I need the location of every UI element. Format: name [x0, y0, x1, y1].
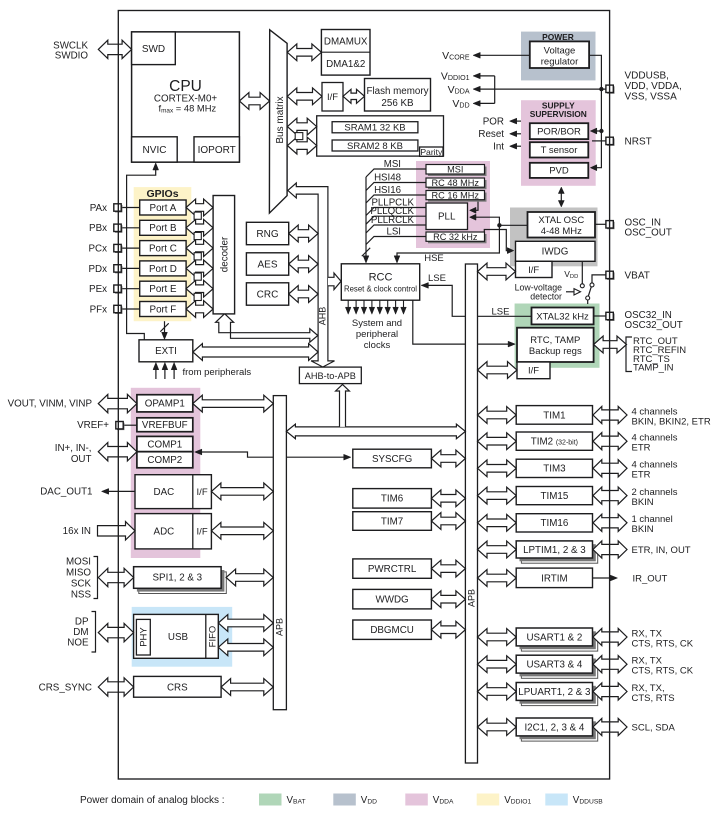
legend swatch: [259, 794, 282, 806]
junction overlap port arrows: [194, 253, 201, 260]
switch contacts low-voltage switch: [580, 284, 584, 288]
VDD domain tint XTAL OSC: [510, 208, 598, 267]
svg-text:DBGMCU: DBGMCU: [370, 625, 414, 636]
svg-text:IRTIM: IRTIM: [541, 573, 568, 584]
svg-text:CTS, RTS: CTS, RTS: [632, 693, 675, 704]
arrow APB to IRTIM: [478, 570, 517, 587]
arrow USART1 &amp; 2 pins: [593, 628, 627, 645]
VBAT domain tint RTC: [515, 304, 600, 368]
wire VDD to backup switch: [581, 261, 583, 283]
svg-text:AHB: AHB: [318, 307, 328, 326]
block SWD: [132, 32, 176, 65]
wire clock bundle to RCC: [365, 177, 367, 260]
node HSE junction: [497, 223, 501, 227]
wire HSI48 clock: [366, 183, 426, 191]
arrow low-voltage detector: [566, 291, 574, 293]
block TIM2: [516, 432, 592, 450]
block LPTIM1, 2 &amp; 3: [521, 546, 597, 563]
block SRAM2: [332, 140, 418, 151]
bus RCC AHB connector: [328, 273, 341, 290]
arrow bus matrix to DMA: [287, 44, 321, 61]
junction overlap port arrows: [194, 212, 201, 219]
block WWDG: [353, 589, 432, 609]
wire supply rail down to POR/BOR: [592, 89, 602, 168]
arrow TIM6 to APB: [431, 490, 465, 507]
arrow AES to AHB: [289, 256, 318, 273]
svg-text:CPU: CPU: [169, 78, 202, 95]
block PWRCTRL: [353, 559, 432, 578]
arrow APB to USART3 &amp; 4: [478, 656, 517, 673]
svg-text:RNG: RNG: [256, 229, 278, 240]
svg-text:detector: detector: [530, 292, 562, 302]
svg-text:RC 16 MHz: RC 16 MHz: [432, 190, 480, 200]
block USART1 &amp; 2: [521, 633, 597, 651]
svg-text:SYSCFG: SYSCFG: [372, 454, 412, 465]
svg-text:256 KB: 256 KB: [381, 98, 414, 109]
wires system and peripheral clocks: [347, 300, 349, 311]
svg-text:COMP1: COMP1: [147, 440, 182, 451]
wire LSE from RCC to XTAL32: [422, 285, 532, 316]
block IOPORT: [194, 137, 239, 162]
wire switch to backup domain: [587, 300, 589, 304]
wire HSE junction to XTAL OSC: [499, 224, 527, 226]
node POR/BOR junction: [599, 129, 603, 133]
arrow CRC to AHB: [289, 286, 318, 303]
VDDA domain tint supply supervision: [521, 100, 596, 186]
block POR BOR: [530, 123, 589, 139]
svg-text:TIM1: TIM1: [543, 410, 565, 421]
svg-text:Power domain of analog blocks: Power domain of analog blocks :: [80, 795, 225, 806]
svg-text:MSI: MSI: [384, 159, 401, 170]
VDDA domain tint analog blocks: [131, 388, 201, 558]
svg-text:PBx: PBx: [89, 223, 107, 234]
bracket USB pins: [92, 612, 96, 653]
wire from peripherals arrows into EXTI: [155, 366, 157, 379]
wire EXTI to NVIC interrupt: [127, 167, 156, 340]
svg-text:LSI: LSI: [386, 226, 401, 237]
svg-text:BKIN: BKIN: [632, 524, 654, 535]
arrow TIM1 pins: [593, 406, 627, 423]
svg-text:FIFO: FIFO: [207, 626, 218, 648]
wire NRST to reset circuitry: [592, 140, 606, 142]
arrow RNG to AHB: [289, 225, 318, 242]
block OPAMP1: [137, 395, 193, 412]
svg-text:ETR: ETR: [632, 443, 651, 454]
svg-text:Port C: Port C: [149, 244, 177, 255]
wire LSI to IWDG: [484, 230, 512, 251]
svg-text:ETR: ETR: [632, 470, 651, 481]
svg-text:PLL: PLL: [438, 212, 456, 223]
svg-text:DAC: DAC: [154, 487, 175, 498]
block CRS: [134, 676, 222, 697]
svg-text:DMA1&2: DMA1&2: [326, 59, 365, 70]
svg-text:COMP2: COMP2: [147, 455, 182, 466]
svg-text:LSE: LSE: [428, 273, 446, 284]
svg-text:Port F: Port F: [150, 304, 177, 315]
svg-text:VSS, VSSA: VSS, VSSA: [625, 91, 678, 102]
block Port F: [140, 302, 186, 317]
svg-text:VREF+: VREF+: [77, 420, 109, 431]
wire HSE to PLL input: [471, 217, 499, 225]
svg-text:SUPERVISION: SUPERVISION: [530, 109, 587, 119]
svg-text:MSI: MSI: [447, 165, 463, 175]
svg-text:SRAM2 8 KB: SRAM2 8 KB: [347, 141, 403, 152]
svg-text:OPAMP1: OPAMP1: [145, 399, 185, 410]
arrow TIM3 pins: [593, 460, 627, 477]
wire LSI clock: [366, 237, 426, 245]
arrow Port C to decoder: [186, 240, 213, 257]
block decoder: [213, 196, 235, 314]
block COMP2: [137, 452, 193, 468]
arrow Port A to decoder: [186, 199, 213, 216]
pin IR_OUT: [593, 577, 615, 579]
svg-text:I/F: I/F: [197, 487, 208, 498]
svg-text:CRS_SYNC: CRS_SYNC: [39, 682, 92, 693]
bus AHB to decoder elbow: [216, 314, 318, 343]
arrow bus matrix to CPU: [239, 93, 269, 110]
svg-text:CRC: CRC: [257, 290, 279, 301]
block SYSCFG: [353, 449, 432, 468]
arrow APB to TIM3: [478, 460, 517, 477]
svg-text:NSS: NSS: [71, 589, 92, 600]
svg-text:DM: DM: [73, 627, 88, 638]
block voltage regulator: [530, 41, 589, 68]
svg-text:regulator: regulator: [541, 56, 579, 67]
block Port A: [140, 200, 186, 215]
bus AHB to APB bridge link: [286, 424, 465, 439]
block RC 16 MHz: [428, 193, 487, 202]
arrow SYSCFG to APB: [431, 450, 465, 467]
svg-text:SCL, SDA: SCL, SDA: [632, 722, 676, 733]
svg-text:TIM6: TIM6: [381, 494, 404, 505]
svg-text:Flash memory: Flash memory: [366, 86, 428, 97]
svg-text:Port B: Port B: [149, 223, 177, 234]
arrow WWDG to APB: [431, 591, 465, 608]
bus AHB vertical bar: [288, 183, 335, 367]
block XTAL OSC: [528, 212, 596, 238]
block TIM16: [516, 514, 592, 532]
wire VCORE from voltage regulator: [475, 54, 530, 56]
block T sensor: [530, 142, 589, 157]
block TIM7: [353, 512, 432, 531]
svg-text:Port D: Port D: [149, 264, 177, 275]
block flash memory: [365, 79, 431, 112]
svg-text:RC 32 kHz: RC 32 kHz: [433, 232, 478, 242]
block Port E: [140, 281, 186, 296]
svg-text:CRS: CRS: [167, 683, 188, 694]
svg-text:I/F: I/F: [528, 366, 539, 377]
arrow APB to TIM2: [478, 433, 517, 450]
block IWDG: [516, 241, 596, 261]
svg-text:PVD: PVD: [549, 166, 569, 177]
block TIM6: [353, 489, 432, 509]
pin OSC32_IN OSC32_OUT: [594, 315, 606, 317]
pin NRST: [607, 138, 614, 145]
bracket RTC pins: [626, 337, 632, 372]
block DMAMUX DMA1and2: [321, 30, 370, 76]
arrow Port E to decoder: [186, 280, 213, 297]
block MSI: [428, 167, 487, 177]
arrow TIM2 pins: [593, 433, 627, 450]
svg-text:I2C1, 2, 3 & 4: I2C1, 2, 3 & 4: [524, 722, 584, 733]
svg-text:GPIOs: GPIOs: [146, 188, 178, 200]
arrow APB to LPTIM1, 2 &amp; 3: [478, 541, 517, 558]
block USART3 &amp; 4: [521, 660, 597, 678]
svg-text:I/F: I/F: [528, 265, 539, 276]
svg-text:PCx: PCx: [88, 244, 107, 255]
svg-text:Reset & clock control: Reset & clock control: [344, 284, 417, 293]
svg-text:T sensor: T sensor: [541, 145, 578, 156]
svg-text:RCC: RCC: [369, 271, 393, 283]
junction overlap port arrows: [194, 273, 201, 280]
svg-text:OSC_OUT: OSC_OUT: [625, 228, 672, 239]
legend swatch: [545, 794, 568, 806]
wire PLLQCLK clock: [366, 216, 426, 224]
svg-text:I/F: I/F: [327, 92, 338, 103]
svg-text:LPUART1, 2 & 3: LPUART1, 2 & 3: [518, 687, 591, 698]
arrow LPUART1, 2 &amp; 3 pins: [593, 683, 627, 700]
block SRAM container: [317, 116, 444, 156]
block AHB-to-APB: [299, 367, 361, 384]
legend swatch: [405, 794, 428, 806]
svg-text:HSI48: HSI48: [374, 172, 401, 183]
svg-text:XTAL32 kHz: XTAL32 kHz: [536, 311, 589, 322]
svg-text:VOUT, VINM, VINP: VOUT, VINM, VINP: [8, 399, 93, 410]
svg-text:CTS, RTS, CK: CTS, RTS, CK: [632, 666, 694, 677]
svg-text:SPI1, 2 & 3: SPI1, 2 & 3: [153, 573, 203, 584]
arrow APB to I2C1, 2, 3 &amp; 4: [478, 719, 517, 736]
pin MOSI MISO SCK NSS: [98, 568, 133, 586]
arrow APB to TIM15: [478, 487, 517, 504]
svg-text:from peripherals: from peripherals: [183, 367, 252, 378]
svg-text:APB: APB: [275, 618, 285, 636]
arrow USART3 &amp; 4 pins: [593, 656, 627, 673]
svg-text:BKIN: BKIN: [632, 497, 654, 508]
svg-text:PWRCTRL: PWRCTRL: [368, 564, 417, 575]
frame device boundary: [118, 11, 609, 780]
block DBGMCU: [353, 620, 432, 639]
wire junction to POR/BOR: [592, 130, 602, 132]
switch arm: [588, 287, 591, 297]
svg-text:Reset: Reset: [478, 129, 504, 140]
svg-text:NVIC: NVIC: [143, 145, 167, 156]
block TIM1: [516, 406, 592, 425]
svg-text:VDDUSB,: VDDUSB,: [625, 71, 669, 82]
bus APB left bar: [273, 396, 286, 710]
svg-text:OSC32_OUT: OSC32_OUT: [625, 320, 683, 331]
svg-text:Port A: Port A: [150, 203, 177, 214]
block Port C: [140, 241, 186, 256]
wire HSE to RCC: [397, 225, 499, 259]
block IRTIM: [516, 568, 592, 588]
wire PLLRCLK clock: [366, 225, 426, 233]
block parity: [420, 147, 443, 156]
pin DP DM NOE: [98, 623, 133, 641]
svg-text:DP: DP: [75, 616, 89, 627]
svg-text:CTS, RTS, CK: CTS, RTS, CK: [632, 638, 694, 649]
wire GPIO ports to EXTI: [164, 321, 166, 336]
arrow PWRCTRL to APB: [431, 560, 465, 577]
svg-text:Voltage: Voltage: [544, 46, 576, 57]
svg-text:TIM7: TIM7: [381, 516, 403, 527]
svg-text:SWD: SWD: [142, 44, 165, 55]
block DAC: [135, 475, 211, 509]
svg-text:TIM3: TIM3: [543, 464, 566, 475]
arrow Port F to decoder: [186, 301, 213, 318]
bus EXTI AHB link: [193, 344, 318, 361]
svg-text:HSE: HSE: [424, 253, 444, 264]
arrow RTC tamper pins: [594, 336, 627, 353]
svg-text:clocks: clocks: [364, 340, 391, 351]
block VREFBUF: [137, 418, 193, 432]
svg-text:WWDG: WWDG: [375, 595, 408, 606]
bracket SPI pins: [94, 557, 98, 599]
svg-text:SWDIO: SWDIO: [55, 51, 89, 62]
arrow USB to APB lower: [218, 639, 273, 656]
junction overlap port arrows: [194, 293, 201, 300]
block ADC: [135, 514, 211, 549]
arrow bus matrix to flash IF: [287, 88, 322, 105]
svg-text:SCK: SCK: [71, 578, 92, 589]
pin 16x IN: [98, 522, 136, 540]
svg-text:ETR, IN, OUT: ETR, IN, OUT: [632, 545, 691, 556]
svg-text:TAMP_IN: TAMP_IN: [633, 363, 674, 374]
wire VBAT to backup switch: [592, 275, 606, 283]
svg-text:AHB-to-APB: AHB-to-APB: [305, 371, 356, 381]
wire MSI clock: [366, 169, 426, 177]
svg-text:Port E: Port E: [149, 284, 177, 295]
legend swatch: [333, 794, 356, 806]
junction overlap port arrows: [194, 232, 201, 239]
svg-text:PLLRCLK: PLLRCLK: [371, 215, 415, 226]
pin DAC_OUT1: [103, 490, 135, 492]
svg-text:decoder: decoder: [219, 236, 230, 272]
block PLL: [426, 203, 468, 230]
arrow bus to SRAM1: [287, 118, 316, 135]
arrow APB to TIM1: [478, 407, 517, 424]
svg-text:PDx: PDx: [88, 264, 107, 275]
wires POR Reset Int outputs: [511, 120, 521, 122]
svg-text:16x IN: 16x IN: [63, 526, 91, 537]
arrow CRS to APB: [221, 679, 273, 696]
svg-text:BKIN, BKIN2, ETR: BKIN, BKIN2, ETR: [632, 416, 711, 427]
wire HSI16 clock: [366, 195, 426, 203]
svg-text:LSE: LSE: [492, 306, 510, 317]
pin VBAT: [607, 272, 614, 279]
VDD domain tint POWER: [521, 32, 596, 81]
wire VDDIO1 VDDA VDD distribution: [494, 76, 496, 104]
pin SWCLK SWDIO: [98, 40, 131, 58]
svg-text:MISO: MISO: [66, 567, 91, 578]
svg-text:VREFBUF: VREFBUF: [142, 420, 188, 431]
svg-text:DAC_OUT1: DAC_OUT1: [40, 486, 92, 497]
block RTC TAMP backup: [517, 328, 594, 362]
pin VOUT VINM VINP: [98, 394, 137, 412]
wire PLLPCLK clock: [366, 208, 426, 216]
block CPU: [132, 32, 240, 162]
svg-text:DMAMUX: DMAMUX: [324, 36, 368, 47]
svg-text:NOE: NOE: [67, 637, 89, 648]
VDDIO1 domain tint GPIOs: [134, 187, 192, 321]
VDDUSB domain tint USB: [132, 607, 233, 667]
svg-text:MOSI: MOSI: [66, 556, 91, 567]
block Port B: [140, 220, 186, 235]
block USB: [134, 614, 219, 658]
pin IN+ IN- OUT: [98, 443, 137, 461]
svg-text:Backup regs: Backup regs: [529, 346, 582, 357]
wire RCC RTC clock to RTC block: [413, 300, 514, 344]
block AES: [246, 253, 288, 275]
bus matrix: [269, 30, 287, 213]
svg-text:SRAM1 32 KB: SRAM1 32 KB: [344, 123, 405, 134]
arrow USB to APB upper: [218, 615, 273, 632]
arrow APB to IWDG IF: [478, 263, 516, 280]
pin OSC_IN OSC_OUT: [595, 223, 606, 225]
arrow APB to RTC IF: [478, 362, 518, 379]
arrow I2C1, 2, 3 &amp; 4 pins: [593, 718, 627, 735]
block Port D: [140, 261, 186, 276]
svg-text:Parity: Parity: [420, 147, 443, 157]
arrow TIM16 pins: [593, 514, 627, 531]
arrow ADC to APB: [211, 522, 273, 539]
svg-text:RTC, TAMP: RTC, TAMP: [530, 335, 580, 346]
svg-text:PFx: PFx: [90, 304, 108, 315]
pin CRS_SYNC: [98, 678, 133, 696]
svg-text:Bus matrix: Bus matrix: [275, 96, 286, 143]
arrow TIM15 pins: [593, 487, 627, 504]
svg-text:TIM15: TIM15: [541, 491, 569, 502]
legend swatch: [477, 794, 500, 806]
bus branch to AHB-to-APB: [336, 384, 350, 427]
svg-text:LPTIM1, 2 & 3: LPTIM1, 2 & 3: [523, 545, 586, 556]
arrow Port D to decoder: [186, 260, 213, 277]
block IWDG IF: [516, 261, 553, 277]
VDDA domain tint clocks: [416, 161, 490, 248]
block TIM3: [516, 459, 592, 477]
block XTAL32 kHz: [532, 308, 594, 325]
arrow bus to SRAM2: [287, 137, 316, 154]
block USB PHY: [136, 619, 150, 655]
svg-text:NRST: NRST: [625, 136, 652, 147]
svg-text:IN+, IN-,: IN+, IN-,: [55, 443, 92, 454]
block RTC IF: [517, 362, 550, 379]
svg-text:peripheral: peripheral: [356, 329, 398, 340]
pin VDD VDDA VSS VSSA: [607, 86, 614, 93]
arrow APB to LPUART1, 2 &amp; 3: [478, 683, 517, 700]
arrow LPTIM1, 2 &amp; 3 pins: [593, 541, 627, 558]
wire HSI16 to PLL input: [471, 200, 478, 211]
block RC 32 kHz: [428, 234, 487, 243]
svg-text:IOPORT: IOPORT: [198, 145, 236, 156]
svg-text:RC 48 MHz: RC 48 MHz: [432, 178, 480, 188]
wire voltage regulator to VDDA rail: [589, 55, 601, 89]
wire supply supervision to XTAL OSC: [560, 190, 562, 204]
node VDDA junction: [599, 87, 603, 91]
arrow SPI to APB: [226, 569, 273, 586]
block EXTI: [139, 340, 193, 362]
arrow OPAMP1 to APB: [193, 395, 273, 412]
svg-text:USART3 & 4: USART3 & 4: [526, 660, 582, 671]
block LPUART1, 2 &amp; 3: [521, 688, 597, 706]
svg-text:POR/BOR: POR/BOR: [537, 127, 581, 138]
block RC 48 MHz: [428, 180, 487, 189]
block RCC: [341, 264, 419, 300]
svg-text:APB: APB: [466, 589, 476, 607]
svg-text:TIM16: TIM16: [541, 518, 569, 529]
block TIM15: [516, 487, 592, 505]
block PVD: [530, 163, 589, 178]
block CRC: [246, 283, 288, 305]
